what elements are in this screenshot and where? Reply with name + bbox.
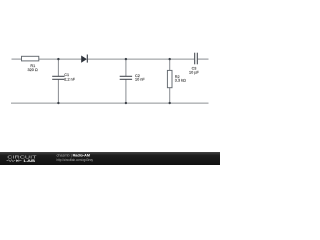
wire: C1 branch upper <box>57 59 59 76</box>
capacitor C1 <box>52 75 64 77</box>
resistor R1 <box>22 56 39 61</box>
wire: C3 right plate to open end <box>198 58 209 60</box>
wire: diode cathode to C3 left plate <box>88 58 194 60</box>
junction: R2 bottom node <box>169 102 171 104</box>
svg-text:http://circuitlab.com/cgd3rwy: http://circuitlab.com/cgd3rwy <box>57 158 94 162</box>
svg-text:3.3 kΩ: 3.3 kΩ <box>175 79 186 83</box>
wire: bottom rail <box>11 102 209 104</box>
wire: R2 branch upper <box>169 59 171 70</box>
svg-text:2.2 nF: 2.2 nF <box>64 78 75 82</box>
junction: C1 top node <box>57 58 59 60</box>
wire: C2 branch upper <box>125 59 127 76</box>
svg-text:C1: C1 <box>64 73 69 77</box>
wire: top rail left lead into R1 <box>12 58 22 60</box>
wire: C2 branch lower <box>125 80 127 104</box>
diode D <box>81 56 87 63</box>
svg-text:10 µF: 10 µF <box>189 70 199 74</box>
svg-text:LAB: LAB <box>24 158 36 163</box>
junction: R2 top node <box>169 58 171 60</box>
svg-text:10 nF: 10 nF <box>135 77 145 81</box>
junction: C2 top node <box>125 58 127 60</box>
resistor R2 <box>167 70 172 87</box>
CircuitLab logo: resistor zigzag <box>7 160 16 162</box>
wire: C1 branch lower <box>57 80 59 104</box>
junction: C1 bottom node <box>57 102 59 104</box>
wire: R2 branch lower <box>169 88 171 104</box>
wire: R1 to diode anode <box>39 58 82 60</box>
capacitor C2 <box>120 75 132 77</box>
junction: C2 bottom node <box>125 102 127 104</box>
svg-text:320 Ω: 320 Ω <box>27 68 37 72</box>
capacitor C3 <box>194 53 196 65</box>
CircuitLab logo: diode glyph <box>16 159 18 162</box>
